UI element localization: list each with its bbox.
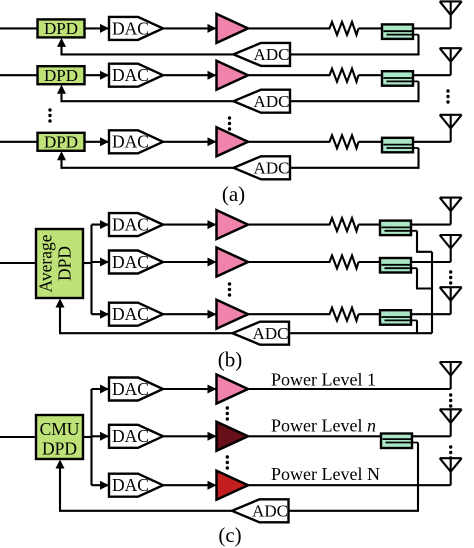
- wire resistor to coupler row3 (a): [359, 141, 384, 143]
- svg-text:ADC: ADC: [254, 159, 290, 178]
- coupler row3 (a): [382, 138, 419, 153]
- wire branch to DAC row2 (c): [92, 432, 110, 441]
- dots antenna column (b): [449, 270, 452, 284]
- wire bus to ADC (b): [289, 332, 432, 334]
- label (b): [218, 348, 243, 372]
- wire input (b): [0, 262, 36, 264]
- dots antenna column rows2-3 (c): [449, 445, 452, 459]
- wire ADC feedback to Average DPD (b): [56, 299, 233, 334]
- svg-text:DAC: DAC: [112, 65, 149, 85]
- wire ADC feedback to CMU DPD (c): [56, 460, 233, 511]
- svg-text:DAC: DAC: [112, 475, 149, 495]
- wire amplifier to resistor row3 (b): [248, 313, 327, 315]
- wire feedback bus vertical (b): [431, 252, 433, 333]
- svg-text:DAC: DAC: [112, 132, 149, 152]
- DAC row2 (c): [109, 425, 163, 448]
- dots antenna column (a): [446, 89, 449, 103]
- antenna row1 (a): [440, 1, 462, 28]
- wire branch to DAC row3 (c): [92, 481, 110, 490]
- wire amplifier to antenna row3 (c): [248, 484, 451, 486]
- coupler row2 (a): [382, 71, 419, 86]
- wire resistor to coupler row2 (b): [359, 261, 382, 263]
- wire coupler to antenna row3 (a): [413, 141, 451, 143]
- wire branch to DAC row1 (c): [92, 385, 110, 394]
- wire resistor to coupler row2 (a): [359, 74, 384, 76]
- wire branch to DAC row2 (b): [92, 258, 110, 267]
- wire coupler to antenna row2 (b): [411, 261, 451, 263]
- wire input row2 (a): [0, 74, 38, 76]
- wire input (c): [0, 436, 36, 438]
- dots middle column rows1-2 (c): [226, 406, 229, 420]
- svg-text:(c): (c): [218, 523, 241, 547]
- svg-text:Power Level n: Power Level n: [271, 416, 376, 436]
- wire DAC to amplifier row1 (c): [163, 385, 217, 394]
- wire DAC to amplifier row3 (a): [163, 137, 217, 146]
- svg-text:DAC: DAC: [112, 18, 149, 38]
- wire DPD to DAC row3 (a): [85, 137, 110, 146]
- svg-text:DPD: DPD: [55, 246, 75, 281]
- wire DAC to amplifier row3 (b): [163, 310, 217, 319]
- coupler row2 (c): [381, 434, 418, 449]
- dots middle column rows2-3 (c): [226, 455, 229, 469]
- svg-text:ADC: ADC: [253, 324, 289, 343]
- svg-text:DPD: DPD: [44, 19, 78, 38]
- resistor row1 (b): [327, 218, 359, 231]
- DAC row1 (a): [109, 17, 163, 40]
- wire coupler tap to ADC row3 (a): [290, 148, 419, 168]
- svg-text:(a): (a): [222, 182, 245, 206]
- wire ADC feedback to DPD row3 (a): [57, 151, 234, 168]
- ADC row3 (a): [234, 156, 291, 179]
- svg-text:DAC: DAC: [112, 426, 149, 446]
- wire coupler tap row1 to bus (b): [417, 231, 432, 252]
- svg-text:ADC: ADC: [254, 45, 290, 64]
- label (a): [222, 182, 245, 206]
- svg-text:Average: Average: [36, 234, 56, 292]
- svg-text:DAC: DAC: [112, 215, 149, 235]
- wire coupler tap row3 (b): [416, 320, 418, 333]
- wire DAC to amplifier row2 (c): [163, 432, 217, 441]
- amplifier PA row2 (b): [217, 248, 249, 277]
- svg-text:DPD: DPD: [42, 439, 77, 459]
- wire coupler to antenna row1 (a): [413, 27, 451, 29]
- label (c): [218, 523, 241, 547]
- coupler row2 (b): [380, 258, 417, 273]
- DAC row1 (b): [109, 213, 163, 236]
- wire amplifier to resistor row3 (a): [248, 141, 327, 143]
- svg-text:ADC: ADC: [254, 92, 290, 111]
- ADC (b): [233, 322, 290, 345]
- coupler row1 (b): [380, 221, 417, 236]
- block DPD row2 (a): [38, 66, 85, 85]
- wire branch vertical (b): [90, 225, 92, 315]
- wire coupler to antenna row2 (a): [413, 74, 451, 76]
- ADC (c): [232, 499, 289, 522]
- resistor row2 (a): [327, 69, 359, 82]
- DAC row3 (a): [109, 130, 163, 153]
- amplifier PA row3 (a): [217, 127, 249, 156]
- amplifier PA row2 (a): [217, 61, 249, 90]
- wire resistor to coupler row1 (b): [359, 224, 382, 226]
- amplifier PA row2 (c): [217, 422, 249, 451]
- svg-text:ADC: ADC: [252, 502, 288, 521]
- svg-text:Power Level N: Power Level N: [271, 464, 380, 484]
- wire DAC to amplifier row2 (b): [163, 258, 217, 267]
- wire amplifier to antenna row1 (c): [248, 388, 451, 390]
- svg-text:DPD: DPD: [44, 66, 78, 85]
- wire coupler to antenna row3 (b): [411, 313, 451, 315]
- wire coupler tap to ADC (c): [289, 443, 419, 511]
- wire DPD to DAC row2 (a): [85, 71, 110, 80]
- antenna row2 (b): [440, 235, 462, 262]
- DAC row3 (b): [109, 303, 163, 326]
- svg-text:DAC: DAC: [112, 379, 149, 399]
- wire coupler tap to ADC row1 (a): [290, 35, 419, 55]
- wire ADC feedback to DPD row1 (a): [57, 38, 234, 55]
- wire input row3 (a): [0, 141, 38, 143]
- wire DAC to amplifier row3 (c): [163, 481, 217, 490]
- label Power Level n (c): [271, 416, 376, 436]
- resistor row3 (b): [327, 308, 359, 321]
- svg-text:DAC: DAC: [112, 304, 149, 324]
- wire DAC to amplifier row2 (a): [163, 71, 217, 80]
- resistor row3 (a): [327, 135, 359, 148]
- wire DPD output to branch (b): [83, 262, 92, 264]
- amplifier PA row3 (b): [217, 300, 249, 329]
- block DPD row1 (a): [38, 19, 85, 38]
- wire input row1 (a): [0, 27, 38, 29]
- DAC row2 (b): [109, 251, 163, 274]
- wire branch to DAC row1 (b): [92, 220, 110, 229]
- block Average DPD (b): [36, 229, 84, 298]
- wire amplifier to coupler row2 (c): [248, 435, 382, 437]
- amplifier PA row1 (b): [217, 210, 249, 239]
- wire coupler tap to ADC row2 (a): [290, 81, 419, 101]
- label Power Level N (c): [271, 464, 380, 484]
- wire ADC feedback to DPD row2 (a): [57, 85, 234, 102]
- label Power Level 1 (c): [271, 370, 376, 390]
- dots middle column (b): [228, 282, 231, 296]
- antenna row1 (c): [440, 362, 462, 389]
- wire coupler tap row2 to bus (b): [417, 268, 432, 288]
- wire resistor to coupler row1 (a): [359, 27, 384, 29]
- amplifier PA row1 (a): [217, 14, 249, 43]
- dots antenna column rows1-2 (c): [449, 393, 452, 407]
- wire coupler to antenna row1 (b): [411, 224, 451, 226]
- wire amplifier to resistor row1 (a): [248, 27, 327, 29]
- antenna row3 (a): [440, 115, 462, 142]
- svg-text:DAC: DAC: [112, 252, 149, 272]
- antenna row2 (a): [440, 48, 462, 75]
- wire amplifier to resistor row2 (a): [248, 74, 327, 76]
- block DPD row3 (a): [38, 133, 85, 152]
- wire resistor to coupler row3 (b): [359, 313, 382, 315]
- dots left column (a): [48, 108, 51, 122]
- amplifier PA row1 (c): [217, 375, 249, 404]
- svg-text:Power Level 1: Power Level 1: [271, 370, 376, 390]
- svg-text:CMU: CMU: [40, 419, 80, 439]
- wire coupler to antenna row2 (c): [412, 435, 451, 437]
- antenna row1 (b): [440, 198, 462, 225]
- amplifier PA row3 (c): [217, 471, 249, 500]
- resistor row1 (a): [327, 22, 359, 35]
- wire DAC to amplifier row1 (a): [163, 24, 217, 33]
- ADC row1 (a): [234, 43, 291, 66]
- resistor row2 (b): [327, 256, 359, 269]
- block CMU DPD (c): [36, 415, 83, 459]
- antenna row3 (c): [440, 458, 462, 485]
- coupler row3 (b): [380, 310, 417, 325]
- wire DPD to DAC row1 (a): [85, 24, 110, 33]
- DAC row3 (c): [109, 474, 163, 497]
- wire DAC to amplifier row1 (b): [163, 220, 217, 229]
- dots middle column (a): [228, 116, 231, 130]
- wire amplifier to resistor row2 (b): [248, 261, 327, 263]
- DAC row1 (c): [109, 378, 163, 401]
- antenna row3 (b): [440, 287, 462, 314]
- wire DPD output to branch (c): [83, 436, 92, 438]
- wire amplifier to resistor row1 (b): [248, 224, 327, 226]
- wire branch to DAC row3 (b): [92, 310, 110, 319]
- DAC row2 (a): [109, 64, 163, 87]
- coupler row1 (a): [382, 24, 419, 39]
- ADC row2 (a): [234, 90, 291, 113]
- wire branch vertical (c): [90, 389, 92, 485]
- svg-text:(b): (b): [218, 348, 243, 372]
- svg-text:DPD: DPD: [44, 133, 78, 152]
- antenna row2 (c): [440, 409, 462, 436]
